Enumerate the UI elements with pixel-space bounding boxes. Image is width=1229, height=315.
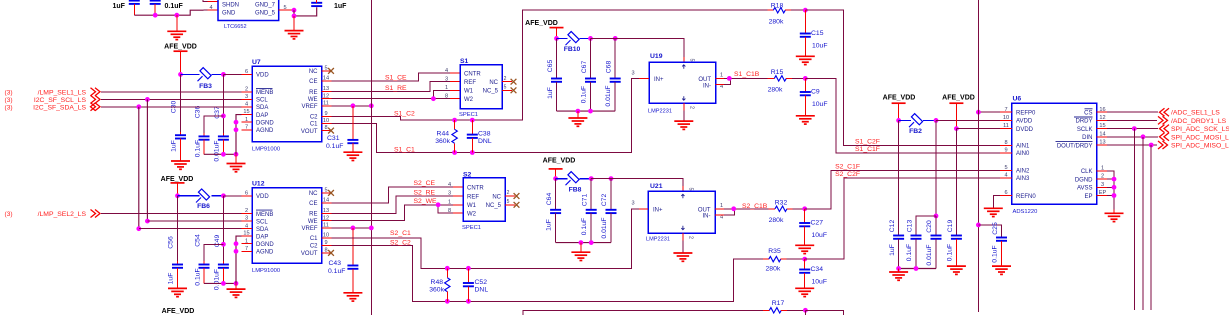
junction SCL branch xyxy=(145,97,150,102)
wire S1_C2 (to R18 via top) xyxy=(332,10,768,120)
svg-text:LMP91000: LMP91000 xyxy=(252,146,280,152)
svg-text:S2_C2: S2_C2 xyxy=(390,239,411,246)
regulator U? LTC6652 (partial) xyxy=(218,0,279,30)
ground under top-left caps xyxy=(167,15,186,39)
svg-text:MENB: MENB xyxy=(256,90,273,96)
svg-text:U19: U19 xyxy=(650,53,663,60)
junction gnd stem xyxy=(576,109,581,114)
svg-text:C71: C71 xyxy=(581,194,588,207)
off-page /LMP_SEL1_LS xyxy=(5,88,101,97)
wire to cap 1uF right xyxy=(294,7,317,16)
svg-text:S1_CE: S1_CE xyxy=(385,75,407,82)
capacitor C71 0.1uF xyxy=(581,179,597,243)
junction R15/C9 xyxy=(803,76,808,81)
wire CS row xyxy=(1107,111,1158,113)
svg-text:C36: C36 xyxy=(195,106,202,119)
svg-text:S2_C1F: S2_C1F xyxy=(835,163,860,170)
svg-text:2: 2 xyxy=(504,76,507,82)
wire MENB U12 xyxy=(101,213,252,215)
wire DOUT row xyxy=(1107,144,1157,146)
svg-text:U6: U6 xyxy=(1013,96,1022,103)
svg-text:1uF: 1uF xyxy=(547,87,554,99)
svg-text:/LMP_SEL2_LS: /LMP_SEL2_LS xyxy=(38,211,87,218)
svg-text:0.1uF: 0.1uF xyxy=(906,244,913,261)
wire FB6 to U12 VDD xyxy=(223,195,252,197)
svg-text:C12: C12 xyxy=(889,220,896,233)
capacitor C13 0.1uF xyxy=(906,216,936,269)
junction FB2 out xyxy=(934,118,939,123)
junction C72 top xyxy=(609,176,614,181)
svg-text:1uF: 1uF xyxy=(889,244,896,256)
svg-text:SPI_ADC_MOSI_LS: SPI_ADC_MOSI_LS xyxy=(1171,134,1229,141)
off-page /ADC_SEL1_LS xyxy=(1160,108,1221,117)
svg-text:0.1uF: 0.1uF xyxy=(165,3,184,10)
wire VREF U7 xyxy=(332,105,372,107)
svg-text:4: 4 xyxy=(445,68,448,74)
resistor R17 280k xyxy=(763,300,805,313)
ground under C9 xyxy=(796,116,815,124)
svg-text:C27: C27 xyxy=(811,220,824,227)
svg-text:3: 3 xyxy=(631,201,634,207)
wire FB2 branch down xyxy=(935,120,937,215)
junction W1/W2 S2 xyxy=(436,202,441,207)
junction VREF vertical xyxy=(369,103,374,108)
svg-text:0.1uF: 0.1uF xyxy=(194,268,201,285)
wire S2_WE to W1/W2 xyxy=(332,198,464,221)
no-connect X on S1 NC_5 xyxy=(511,87,517,93)
wire U21 feedback IN- xyxy=(715,209,735,215)
svg-text:280k: 280k xyxy=(769,217,784,224)
wire SCL U7 xyxy=(101,98,252,100)
svg-text:AIN1: AIN1 xyxy=(1016,144,1030,150)
svg-text:R18: R18 xyxy=(771,2,784,9)
capacitor C20 0.01uF xyxy=(926,216,942,269)
junction U19 OUT xyxy=(727,76,732,81)
capacitor (1uF) top-left partial xyxy=(113,1,140,16)
svg-text:0.01uF: 0.01uF xyxy=(926,244,933,265)
capacitor (0.1uF) top-left partial xyxy=(150,1,184,16)
off-page I2C_SF_SCL_LS xyxy=(5,95,101,104)
svg-text:R17: R17 xyxy=(772,300,785,307)
no-connect X on U7 NC xyxy=(328,68,334,74)
net label S1_C2F xyxy=(855,138,880,145)
svg-text:CNTR: CNTR xyxy=(467,186,484,192)
junction C31 xyxy=(351,103,356,108)
wire S1_CE xyxy=(332,73,461,81)
svg-text:S2_WE: S2_WE xyxy=(414,198,438,205)
svg-text:AGND: AGND xyxy=(256,128,274,134)
svg-text:S2_C1B: S2_C1B xyxy=(742,203,768,210)
junction W1/W2 xyxy=(431,96,436,101)
junction DGND U12 xyxy=(234,241,239,246)
svg-text:NC: NC xyxy=(489,80,498,86)
capacitor C36 (0.1uF) xyxy=(194,106,223,158)
svg-text:W1: W1 xyxy=(467,203,477,209)
wire SCLK bus down xyxy=(1133,129,1135,310)
wire R15 out to AIN0 (S1_C1F) xyxy=(805,78,1012,152)
no-connect X on S2 NC_5 xyxy=(514,202,520,208)
ground REFN0 xyxy=(984,208,1003,216)
power AFE_VDD (DVDD) xyxy=(942,94,975,128)
ground under C15 xyxy=(796,56,815,64)
ground under C43 xyxy=(343,293,362,301)
wire VDD branch down (to C54/C49) xyxy=(222,196,224,265)
wire SDA U7 xyxy=(101,106,252,108)
no-connect X on U12 VOUT xyxy=(328,250,334,256)
svg-text:2: 2 xyxy=(689,106,695,109)
capacitor C54 (0.1uF) xyxy=(194,234,223,286)
svg-text:DNL: DNL xyxy=(475,286,489,293)
junction AGND U12 xyxy=(234,249,239,254)
svg-text:NC: NC xyxy=(492,194,501,200)
svg-text:DGND: DGND xyxy=(1075,177,1093,183)
svg-text:CE: CE xyxy=(309,79,317,85)
svg-text:1uF: 1uF xyxy=(334,3,347,10)
svg-text:S2_CE: S2_CE xyxy=(414,180,436,187)
resistor R18 280k xyxy=(768,2,806,25)
svg-text:S1_C1B: S1_C1B xyxy=(734,71,760,78)
wire REFP0 vertical xyxy=(977,0,979,312)
svg-text:REFP0: REFP0 xyxy=(1016,111,1036,117)
svg-text:0.1uF: 0.1uF xyxy=(581,218,588,235)
ferrite bead FB6 xyxy=(178,189,224,210)
svg-text:LMP91000: LMP91000 xyxy=(252,268,280,274)
capacitor C34 10uF xyxy=(799,259,827,288)
capacitor C31 0.1uF xyxy=(326,106,358,152)
wire REFP0 row xyxy=(978,111,1012,113)
svg-text:280k: 280k xyxy=(769,18,784,25)
junction rail gnd xyxy=(234,152,239,157)
svg-text:4: 4 xyxy=(210,5,213,11)
resistor R48 360k xyxy=(429,268,450,301)
ferrite bead FB3 xyxy=(181,68,224,90)
junction C13/C20 split xyxy=(934,214,939,219)
junction gnd right xyxy=(292,14,297,19)
wire S2_C1 (to U21 IN+) xyxy=(332,209,649,268)
svg-text:C72: C72 xyxy=(601,194,608,207)
junction C43 xyxy=(351,226,356,231)
ground U19 pin2 xyxy=(674,103,693,129)
svg-text:0.1uF: 0.1uF xyxy=(326,143,343,150)
svg-text:LTC6652: LTC6652 xyxy=(224,24,247,30)
wire VDD branch down (to C36/C37) xyxy=(222,74,224,136)
junction AFE_VDD/FB6 xyxy=(175,193,180,198)
ground under C25 xyxy=(992,266,1011,274)
svg-text:C1: C1 xyxy=(310,122,318,128)
IC U12 LMP91000 xyxy=(242,181,332,274)
svg-text:S2_C1: S2_C1 xyxy=(390,230,411,237)
svg-text:/ADC_SEL1_LS: /ADC_SEL1_LS xyxy=(1171,110,1220,117)
power AFE_VDD (FB10) xyxy=(525,20,563,38)
svg-text:1: 1 xyxy=(720,203,723,209)
svg-text:S1_C1F: S1_C1F xyxy=(855,146,880,153)
wire pin5 stub right xyxy=(279,5,294,11)
svg-text:CE: CE xyxy=(309,201,317,207)
svg-text:RE: RE xyxy=(309,90,317,96)
svg-text:C2: C2 xyxy=(310,115,318,121)
junction R17 out xyxy=(803,308,808,313)
svg-text:1: 1 xyxy=(720,73,723,79)
svg-text:1uF: 1uF xyxy=(546,219,553,231)
svg-text:0.1uF: 0.1uF xyxy=(947,244,954,261)
svg-text:REFN0: REFN0 xyxy=(1016,194,1036,200)
junction SCLK tap xyxy=(1132,126,1137,131)
svg-text:VOUT: VOUT xyxy=(301,129,318,135)
junction FB10 out xyxy=(588,36,593,41)
junction at cap 0.1uF xyxy=(153,13,158,18)
svg-text:SCLK: SCLK xyxy=(1077,127,1093,133)
svg-text:AFE_VDD: AFE_VDD xyxy=(883,94,916,101)
wire DIN bus down xyxy=(1142,137,1144,310)
ground under C30 xyxy=(171,161,190,169)
svg-text:REF: REF xyxy=(464,80,476,86)
svg-text:S1_RE: S1_RE xyxy=(385,85,407,92)
svg-text:0.01uF: 0.01uF xyxy=(214,140,221,161)
wire DOUT bus down xyxy=(1150,145,1152,310)
wire DIN row xyxy=(1107,136,1158,138)
capacitor C27 10uF xyxy=(799,209,827,245)
svg-text:AIN0: AIN0 xyxy=(1016,151,1030,157)
net label S2_C2F xyxy=(835,171,860,178)
junction C37 gnd xyxy=(221,152,226,157)
svg-text:0.01uF: 0.01uF xyxy=(605,85,612,106)
svg-text:10uF: 10uF xyxy=(812,42,828,49)
wire SHDN row xyxy=(203,0,218,2)
ground under C64/C71/C72 xyxy=(571,243,590,261)
ground under C31 xyxy=(343,152,362,160)
svg-text:R32: R32 xyxy=(775,200,788,207)
svg-text:SHDN: SHDN xyxy=(222,3,239,9)
svg-text:C20: C20 xyxy=(926,220,933,233)
wire S1_C1 (to U19 IN+) xyxy=(332,79,650,154)
off-page /ADC_DRDY1_LS xyxy=(1158,116,1227,125)
off-page SPI_ADC_MISO_LS xyxy=(1158,141,1229,150)
svg-text:ADS1220: ADS1220 xyxy=(1013,209,1038,215)
junction R48 bottom xyxy=(445,299,450,304)
svg-text:C64: C64 xyxy=(546,193,553,206)
resistor R44 360k xyxy=(435,120,457,152)
junction REFP0 xyxy=(976,110,981,115)
svg-text:C43: C43 xyxy=(329,260,342,267)
IC U7 LMP91000 xyxy=(242,59,332,152)
junction C36 branch xyxy=(221,114,226,119)
wire SDA U12 xyxy=(139,228,252,230)
ground under C54/C49 cluster xyxy=(227,283,246,297)
power AFE_VDD (U7) xyxy=(164,44,197,75)
svg-text:W2: W2 xyxy=(467,212,477,218)
junction rail gnd 2 xyxy=(234,281,239,286)
capacitor C9 10uF xyxy=(800,78,828,115)
junction DGND xyxy=(234,120,239,125)
junction DVDD xyxy=(954,126,959,131)
junction VREF vertical 2 xyxy=(369,226,374,231)
off-page /LMP_SEL2_LS xyxy=(5,210,101,219)
junction U21 OUT xyxy=(731,206,736,211)
ground under C12 xyxy=(889,269,908,281)
svg-text:C37: C37 xyxy=(214,106,221,119)
wire S2_RE xyxy=(332,189,464,213)
svg-text:S1_C2: S1_C2 xyxy=(394,110,415,117)
svg-text:NC_5: NC_5 xyxy=(486,203,502,209)
svg-text:SPI_ADC_MISO_LS: SPI_ADC_MISO_LS xyxy=(1171,143,1229,150)
svg-text:C31: C31 xyxy=(327,135,340,142)
svg-text:DNL: DNL xyxy=(478,138,492,145)
svg-text:VOUT: VOUT xyxy=(301,251,318,257)
wire R18 out to AIN1 (S1_C2F) xyxy=(805,10,1012,145)
power AFE_VDD (bottom) xyxy=(162,308,195,315)
capacitor C65 1uF xyxy=(547,38,562,111)
capacitor C? (1uF) right of LTC6652 xyxy=(311,0,347,10)
svg-text:8: 8 xyxy=(445,93,448,99)
capacitor C43 0.1uF xyxy=(328,228,358,293)
svg-text:C2: C2 xyxy=(310,244,318,250)
svg-text:AFE_VDD: AFE_VDD xyxy=(162,308,195,315)
svg-text:1: 1 xyxy=(448,199,451,205)
svg-text:280k: 280k xyxy=(766,266,781,273)
junction SDA branch xyxy=(136,104,141,109)
svg-text:WE: WE xyxy=(308,219,318,225)
svg-text:REF: REF xyxy=(467,194,479,200)
svg-text:FB10: FB10 xyxy=(564,46,581,53)
svg-text:C19: C19 xyxy=(947,220,954,233)
ground under C65/C67/C68 xyxy=(568,111,587,126)
wire FB3 to U7 VDD xyxy=(223,73,252,75)
wire S1_RE xyxy=(332,82,461,93)
svg-text:0.01uF: 0.01uF xyxy=(601,217,608,238)
switch S2 SPEC1 xyxy=(448,171,515,231)
svg-text:5: 5 xyxy=(688,188,694,191)
junction AFE_VDD/FB3 xyxy=(178,72,183,77)
junction C49 gnd xyxy=(221,281,226,286)
junction C52 top xyxy=(466,266,471,271)
svg-text:0.1uF: 0.1uF xyxy=(992,245,999,262)
no-connect X on S1 NC xyxy=(511,79,517,85)
svg-text:FB6: FB6 xyxy=(197,203,210,210)
svg-text:AFE_VDD: AFE_VDD xyxy=(164,44,197,51)
junction R18/C15 xyxy=(803,8,808,13)
svg-text:CLK: CLK xyxy=(1081,169,1093,175)
wire SCL bus down xyxy=(146,99,148,221)
svg-text:1uF: 1uF xyxy=(113,3,126,10)
svg-text:RE: RE xyxy=(309,212,317,218)
junction FB6 out xyxy=(221,193,226,198)
svg-text:C49: C49 xyxy=(214,235,221,248)
svg-text:0.1uF: 0.1uF xyxy=(581,86,588,103)
junction R48 top xyxy=(445,266,450,271)
wire pin4 stub xyxy=(204,5,219,11)
junction C54 branch xyxy=(221,242,226,247)
svg-text:AVDD: AVDD xyxy=(1016,119,1033,125)
svg-text:/LMP_SEL1_LS: /LMP_SEL1_LS xyxy=(38,89,87,96)
svg-text:C52: C52 xyxy=(475,279,488,286)
svg-text:NC: NC xyxy=(309,69,318,75)
junction AFE_VDD/FB10 xyxy=(554,36,559,41)
svg-text:U21: U21 xyxy=(650,183,663,190)
svg-text:CNTR: CNTR xyxy=(464,72,481,78)
junction pin5 xyxy=(292,8,297,13)
svg-text:C13: C13 xyxy=(906,220,913,233)
wire FB10 rail to U19 pin5 xyxy=(591,38,684,62)
svg-text:I2C_SF_SCL_LS: I2C_SF_SCL_LS xyxy=(34,97,87,104)
svg-text:360k: 360k xyxy=(429,286,444,293)
wire cap gnd rail 2 xyxy=(556,242,611,244)
ground under C27 xyxy=(795,245,814,253)
capacitor C12 1uF xyxy=(889,120,904,268)
capacitor C64 1uF xyxy=(546,179,562,243)
junction DGND pin xyxy=(1112,177,1117,182)
svg-text:SPEC1: SPEC1 xyxy=(459,112,478,118)
off-page SPI_ADC_MOSI_LS xyxy=(1160,133,1229,142)
wire U19 OUT / S1_C1B xyxy=(716,71,768,90)
svg-text:EP: EP xyxy=(1084,194,1092,200)
svg-text:S2_RE: S2_RE xyxy=(414,189,436,196)
svg-text:DAP: DAP xyxy=(256,113,268,119)
svg-text:IN-: IN- xyxy=(703,214,711,220)
svg-text:U12: U12 xyxy=(252,181,265,188)
svg-text:(3): (3) xyxy=(5,104,13,111)
svg-text:VREF: VREF xyxy=(301,226,317,232)
svg-text:AFE_VDD: AFE_VDD xyxy=(161,176,194,183)
svg-text:R15: R15 xyxy=(771,69,784,76)
svg-text:AFE_VDD: AFE_VDD xyxy=(942,94,975,101)
svg-text:AVSS: AVSS xyxy=(1077,186,1093,192)
wire R17 feed (from below) xyxy=(523,310,763,315)
op-amp U19 LMP2231 xyxy=(631,53,715,114)
svg-text:IN+: IN+ xyxy=(653,207,663,213)
power AFE_VDD (U12) xyxy=(161,176,194,196)
svg-text:GND_7: GND_7 xyxy=(255,3,276,9)
svg-text:2: 2 xyxy=(507,190,510,196)
wire gnd rail under caps xyxy=(134,10,203,15)
wire R35 out to AIN3 (S2_C2F) xyxy=(805,178,1012,259)
svg-text:SCL: SCL xyxy=(256,98,268,104)
resistor R15 280k xyxy=(768,69,806,93)
svg-text:10uF: 10uF xyxy=(812,101,828,108)
svg-text:DAP: DAP xyxy=(256,234,268,240)
wire gnd rail C12/C13/C20 xyxy=(899,268,936,270)
wire VREF shared vertical xyxy=(370,0,372,315)
junction C71 bottom xyxy=(589,240,594,245)
capacitor C56 (1uF) xyxy=(168,196,184,288)
svg-text:AIN3: AIN3 xyxy=(1016,176,1030,182)
svg-text:SDA: SDA xyxy=(256,227,268,233)
svg-text:C65: C65 xyxy=(547,60,554,73)
junction C67 bottom xyxy=(588,109,593,114)
svg-text:10uF: 10uF xyxy=(812,279,828,286)
svg-text:LMP2231: LMP2231 xyxy=(648,108,672,114)
net label S1_C1F xyxy=(855,146,880,153)
svg-text:DRDY: DRDY xyxy=(1075,119,1092,125)
svg-text:OUT: OUT xyxy=(698,207,711,213)
IC U6 ADS1220 xyxy=(1000,96,1107,216)
svg-text:10uF: 10uF xyxy=(812,232,828,239)
wire REFN0 to ground xyxy=(993,196,1000,208)
wire FB8 rail to U21 pin5 xyxy=(591,179,683,191)
svg-text:DVDD: DVDD xyxy=(1016,127,1034,133)
wire DAP down (U12) xyxy=(236,236,242,283)
off-page I2C_SF_SDA_LS xyxy=(5,103,101,112)
junction DOUT tap xyxy=(1149,143,1154,148)
svg-text:0.1uF: 0.1uF xyxy=(194,140,201,157)
svg-text:IN+: IN+ xyxy=(654,77,664,83)
resistor R35 280k xyxy=(763,248,805,272)
junction gnd stem xyxy=(174,13,179,18)
svg-text:5: 5 xyxy=(689,59,695,62)
capacitor C68 0.01uF xyxy=(605,38,621,111)
svg-text:2: 2 xyxy=(688,236,694,239)
svg-text:FB2: FB2 xyxy=(909,128,922,135)
junction C38 bottom xyxy=(470,150,475,155)
